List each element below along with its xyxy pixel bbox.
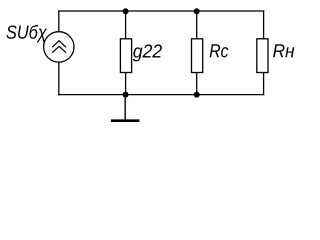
label Rн	[273, 44, 284, 57]
wire Rc bottom stub	[196, 72, 198, 95]
wire Rн bottom stub	[263, 72, 265, 95]
resistor Rн (load)	[257, 39, 268, 73]
resistor Rс	[192, 39, 203, 73]
node junction top Rc	[194, 8, 200, 14]
label g22	[133, 47, 143, 61]
label SUвх	[6, 25, 16, 38]
node junction bottom Rc	[194, 92, 200, 98]
wire left column bottom lead	[58, 62, 60, 95]
current source SUвх (dependent source S·Uвх)	[44, 32, 74, 62]
wire Rн top stub	[263, 10, 265, 38]
wire g22 bottom stub	[125, 72, 127, 95]
node junction top g22	[123, 8, 129, 14]
node junction bottom g22 / ground node	[123, 92, 129, 98]
wire bottom rail	[58, 94, 264, 96]
wire g22 top stub	[125, 10, 127, 38]
wire left column top lead	[58, 10, 60, 31]
wire top rail	[58, 10, 264, 12]
resistor g22 (output conductance)	[120, 39, 131, 73]
wire Rc top stub	[196, 10, 198, 38]
ground	[111, 95, 139, 121]
label Rс	[210, 44, 220, 57]
